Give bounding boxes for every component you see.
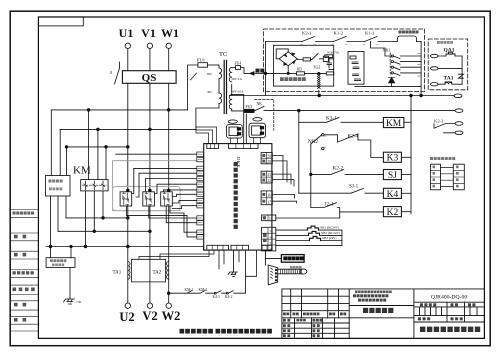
gate wire T5 bbox=[146, 179, 197, 192]
svg-text:KM: KM bbox=[386, 119, 402, 129]
svg-text:12: 12 bbox=[269, 235, 273, 239]
signal right bus bbox=[341, 230, 343, 246]
svg-text:W1: W1 bbox=[161, 26, 179, 40]
switch NK bbox=[254, 106, 264, 111]
oval terminal K2-3 b bbox=[455, 131, 463, 135]
bridge corner loop wire bbox=[276, 49, 288, 59]
signal lamp row 1 bbox=[276, 229, 342, 231]
W2 wire lower bbox=[168, 293, 170, 303]
ladder second bus bbox=[310, 144, 312, 208]
fuse RD bbox=[296, 72, 304, 75]
disconnect switch QS bbox=[122, 71, 176, 84]
wires terminals to QS bbox=[128, 49, 169, 71]
thyristor module 3 (W phase) bbox=[161, 192, 173, 206]
transformer TC core bbox=[224, 60, 226, 113]
coil SJ bbox=[383, 170, 401, 180]
terminal wire 14 to K2 rung bbox=[276, 212, 340, 218]
bottom row with TA1 coil bbox=[431, 83, 439, 86]
NK1 contact 3 bbox=[391, 66, 393, 68]
alarm box right link bbox=[461, 56, 463, 84]
svg-text:QJR400-DQ-00: QJR400-DQ-00 bbox=[431, 295, 467, 301]
bus drops to KM contactor bbox=[89, 110, 106, 180]
svg-text:V1: V1 bbox=[141, 26, 156, 40]
bus wire 2 V-phase tap bbox=[60, 128, 196, 130]
controller right terminal box 23/22 bbox=[261, 171, 272, 183]
svg-text:TA2: TA2 bbox=[153, 271, 162, 276]
gate wire T1 bbox=[116, 153, 197, 155]
tap switch tick bbox=[191, 73, 197, 80]
middle row wire bbox=[431, 67, 439, 70]
TA secondary loop bbox=[132, 259, 166, 282]
svg-text:KM: KM bbox=[73, 165, 91, 177]
QA1 row with button bbox=[431, 54, 439, 57]
spare terminal arrow 备用 bbox=[250, 72, 254, 76]
controller right terminal box 14 bbox=[262, 215, 276, 221]
coil K2 bbox=[383, 207, 401, 217]
contact K2-1 bbox=[302, 37, 315, 42]
tie bus U below SCR bbox=[66, 217, 128, 219]
terminal W1 bbox=[166, 43, 171, 48]
feedback wire up to controller bbox=[244, 250, 246, 293]
gate wire T7 bbox=[164, 190, 197, 192]
title block middle dividers bbox=[349, 289, 414, 339]
TC secondary 36V/1A bbox=[229, 68, 231, 82]
bypass contactor KM bbox=[81, 180, 108, 191]
svg-text:13: 13 bbox=[269, 229, 273, 233]
svg-text:17: 17 bbox=[267, 200, 271, 204]
K1-1 to NK1 feed bbox=[371, 42, 392, 57]
controller right terminal box signal 13-10 bbox=[262, 227, 276, 251]
svg-text:W3(470): W3(470) bbox=[327, 50, 339, 54]
title block right grid bbox=[414, 302, 485, 322]
svg-text:U2: U2 bbox=[119, 310, 134, 324]
bus drops to KZ3000 bbox=[51, 110, 66, 176]
left bus of dashed box bbox=[265, 42, 267, 96]
chinese display box 中文显示器 bbox=[281, 255, 304, 263]
svg-text:W2: W2 bbox=[162, 309, 181, 323]
gate wire T8 bbox=[172, 194, 197, 196]
controller top box1 feed wires bbox=[196, 127, 217, 144]
feedback contact line bbox=[167, 292, 170, 295]
svg-text:SJ: SJ bbox=[388, 171, 397, 181]
svg-text:36V/1A: 36V/1A bbox=[231, 77, 242, 81]
TC secondary 36V/10A bbox=[229, 95, 231, 109]
terminal V2 bbox=[147, 303, 152, 308]
svg-text:660: 660 bbox=[207, 72, 212, 76]
contact and relay J2 bbox=[311, 54, 318, 60]
bus wire 3 U-phase tap bbox=[67, 146, 128, 148]
alarm unit dashed box bbox=[428, 39, 468, 90]
right terminal elbow wires bbox=[272, 155, 294, 186]
svg-text:XB3 (24V): XB3 (24V) bbox=[322, 236, 336, 240]
svg-text:23: 23 bbox=[267, 173, 271, 177]
display connector plug bbox=[268, 265, 278, 285]
NK1 contact 4 bbox=[391, 72, 393, 74]
svg-text:TC: TC bbox=[219, 51, 227, 58]
svg-text:≤30: ≤30 bbox=[76, 300, 82, 304]
bridge rectifier bbox=[279, 52, 297, 66]
lower wire T12 bbox=[166, 206, 197, 223]
svg-text:FU5: FU5 bbox=[246, 105, 253, 109]
svg-text:K3: K3 bbox=[387, 154, 399, 164]
controller unit box bbox=[204, 144, 272, 251]
title block product description text bbox=[355, 291, 358, 294]
earth wire bbox=[69, 267, 71, 299]
company name 山西际安电气有限公司 bbox=[420, 327, 425, 332]
KZ3000 outputs down bbox=[51, 196, 67, 258]
aux terminal strip left bbox=[431, 164, 441, 190]
svg-text:QS: QS bbox=[142, 72, 157, 84]
oval terminal NK line bbox=[455, 109, 463, 113]
TA wires to controller bbox=[139, 250, 214, 259]
disclaimer 此图仅供参考... bbox=[180, 329, 185, 334]
control unit dashed enclosure bbox=[264, 29, 425, 92]
svg-text:22: 22 bbox=[267, 179, 271, 183]
controller left terminal tags bbox=[197, 152, 204, 156]
svg-text:K4-2: K4-2 bbox=[225, 295, 233, 299]
ladder left bus bbox=[298, 111, 300, 194]
controller right terminal box 29/28 bbox=[261, 153, 272, 164]
svg-text:8: 8 bbox=[110, 70, 112, 75]
svg-text:K2: K2 bbox=[387, 208, 399, 218]
signal lamp row 3 bbox=[276, 240, 342, 242]
svg-text:NK: NK bbox=[257, 102, 263, 106]
NK linkage dashed bbox=[255, 100, 274, 131]
coil K3 bbox=[383, 152, 401, 162]
svg-text:FU1: FU1 bbox=[197, 58, 205, 63]
svg-text:10: 10 bbox=[269, 247, 273, 251]
terminal U2 bbox=[125, 303, 130, 308]
title block header tiny texts bbox=[283, 313, 286, 316]
bus wire 1 W-phase tap bbox=[51, 109, 187, 111]
signal common row 4 bbox=[276, 245, 342, 247]
svg-text:V2: V2 bbox=[142, 309, 157, 323]
top bus in dashed box bbox=[266, 41, 422, 43]
svg-text:380: 380 bbox=[207, 90, 212, 94]
svg-text:K1-2: K1-2 bbox=[334, 31, 344, 36]
ladder right bus drop bbox=[410, 96, 412, 215]
phase wires through modules bbox=[128, 206, 169, 293]
TC primary winding bbox=[196, 65, 222, 129]
phase U down to U2 bbox=[127, 218, 129, 303]
svg-text:TA1: TA1 bbox=[444, 76, 454, 82]
svg-text:K2-1: K2-1 bbox=[302, 31, 312, 36]
lower wire T13 bbox=[170, 206, 197, 232]
QS handle bbox=[115, 62, 120, 84]
oval terminal K2-3 a bbox=[455, 122, 463, 126]
fuse FU4 bbox=[236, 66, 241, 70]
svg-text:SJ-1: SJ-1 bbox=[349, 183, 359, 189]
svg-text:28: 28 bbox=[267, 160, 271, 164]
controller top terminal box 2 bbox=[229, 144, 259, 149]
title block outline bbox=[282, 289, 485, 339]
title block left grid bbox=[282, 296, 349, 333]
controller bottom terminal box 3 bbox=[262, 245, 272, 250]
controller bottom terminal box 1 bbox=[207, 245, 229, 250]
main bottom bus bbox=[46, 246, 204, 248]
svg-text:K2-3: K2-3 bbox=[434, 119, 444, 124]
bus end oval terminal bbox=[454, 94, 462, 98]
controller right terminal box 16/17 bbox=[261, 191, 272, 205]
cable tag label bbox=[290, 266, 293, 269]
ground electrode symbol bbox=[64, 299, 75, 304]
svg-text:36V/10A: 36V/10A bbox=[231, 90, 244, 94]
label XDB驱动板 bbox=[280, 77, 284, 81]
RC3000 top stub bbox=[70, 247, 72, 258]
top-left title box bbox=[38, 17, 83, 26]
svg-text:FU4: FU4 bbox=[235, 62, 242, 66]
secondary2 top wire bbox=[232, 95, 244, 144]
terminal U1 bbox=[125, 43, 130, 48]
display unit wire bbox=[265, 250, 281, 265]
coil KM bbox=[383, 118, 404, 128]
bus below dashed boxes bbox=[230, 95, 455, 97]
contact K1-2 bbox=[334, 37, 347, 42]
thyristor module 1 (U phase) bbox=[120, 192, 132, 206]
grey gate common wire bbox=[113, 161, 197, 211]
secondary2 bottom wire bbox=[232, 109, 244, 111]
gate wire T9 bbox=[172, 201, 197, 203]
phase V down to V2 bbox=[149, 231, 151, 303]
terminal W2 bbox=[166, 303, 171, 308]
terminal V1 bbox=[147, 43, 152, 48]
fuse FU5 bbox=[244, 109, 254, 112]
svg-text:16: 16 bbox=[267, 194, 271, 198]
filter component A bbox=[228, 120, 237, 123]
gate wire T6 bbox=[154, 184, 196, 193]
grey module group outline bbox=[113, 187, 181, 211]
drawing title 电气原理图 bbox=[363, 308, 368, 313]
signal lamp row 2 bbox=[276, 234, 342, 236]
NK1 contact 1 bbox=[391, 55, 393, 57]
svg-text:XB1 (DC24V): XB1 (DC24V) bbox=[320, 226, 339, 230]
resistor R1 bbox=[297, 58, 303, 61]
NK1 contact 2 bbox=[391, 61, 393, 63]
gate wire T4 bbox=[136, 173, 197, 197]
svg-text:TA1: TA1 bbox=[113, 271, 122, 276]
ground symbol below controller bbox=[228, 272, 237, 277]
sidebar revision table bbox=[10, 210, 38, 332]
svg-text:14: 14 bbox=[269, 217, 273, 221]
wire NK to ladder top bus bbox=[264, 110, 455, 112]
thyristor module 2 (V phase) bbox=[143, 192, 155, 206]
aux remote label bbox=[430, 157, 433, 160]
aux strip link wires bbox=[441, 167, 454, 186]
resistor on rail right of TG2 bbox=[326, 72, 333, 75]
TG2 bottom lead bbox=[318, 91, 320, 96]
svg-text:U1: U1 bbox=[119, 26, 134, 40]
controller ground wire bbox=[233, 250, 235, 272]
svg-text:K4: K4 bbox=[387, 190, 399, 200]
stage mark headers bbox=[420, 303, 423, 306]
bottom bus in dashed box bbox=[355, 42, 421, 96]
zener diode bbox=[388, 77, 394, 83]
svg-text:TG2: TG2 bbox=[313, 65, 320, 70]
gate wire T3 bbox=[132, 168, 197, 193]
coil 线圈(合闸) bbox=[398, 36, 417, 42]
tie bus V below SCR bbox=[58, 230, 150, 232]
XDB driver board box bbox=[274, 45, 334, 86]
svg-text:11: 11 bbox=[269, 241, 273, 245]
thermal protector RC-3000 box bbox=[46, 258, 75, 268]
surge arrester zigzag bbox=[459, 74, 464, 78]
filter component B bbox=[253, 118, 262, 121]
svg-text:RD: RD bbox=[297, 68, 302, 72]
lower wire T11 bbox=[149, 206, 197, 218]
component stubs to controller top bbox=[231, 138, 261, 144]
controller top terminal box 1 bbox=[207, 144, 219, 149]
KM outputs down bbox=[86, 191, 104, 247]
controller bottom terminal box 2 bbox=[231, 245, 249, 250]
bridge bottom lead bbox=[287, 66, 289, 74]
socket feed wire bbox=[245, 114, 247, 144]
coil K4 bbox=[383, 188, 401, 198]
sidebar tiny labels bbox=[13, 212, 35, 322]
controller bottom stub wires bbox=[219, 250, 239, 269]
fuse FU1 bbox=[188, 65, 198, 110]
lower wire T14 bbox=[126, 206, 196, 237]
svg-text:XB2 (DC24V): XB2 (DC24V) bbox=[321, 231, 340, 235]
contact K1-1 bbox=[365, 37, 378, 42]
display cable bbox=[278, 269, 302, 274]
svg-text:K4-1: K4-1 bbox=[213, 295, 221, 299]
aux terminal strip right bbox=[453, 164, 464, 190]
svg-text:29: 29 bbox=[267, 154, 271, 158]
gate wire T10 bbox=[172, 206, 197, 209]
intelligent protector KZ-3000 box bbox=[46, 176, 71, 197]
svg-text:K1-1: K1-1 bbox=[365, 31, 375, 36]
phase wires below QS bbox=[128, 83, 169, 190]
main rail through box bbox=[266, 72, 327, 74]
